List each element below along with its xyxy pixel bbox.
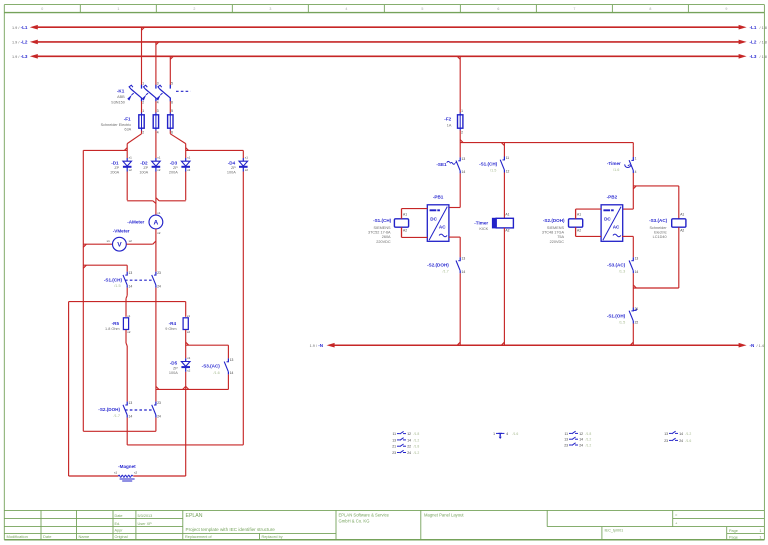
svg-text:13: 13 xyxy=(564,438,568,442)
svg-text:x1: x1 xyxy=(114,470,118,474)
svg-text:-Timer: -Timer xyxy=(474,220,488,225)
svg-text:-D1: -D1 xyxy=(111,160,119,165)
svg-text:Schneider Electric: Schneider Electric xyxy=(101,123,132,127)
svg-text:4: 4 xyxy=(345,7,347,11)
svg-text:Date: Date xyxy=(43,534,52,539)
svg-text:23: 23 xyxy=(564,443,568,447)
svg-text:-D3: -D3 xyxy=(170,160,178,165)
svg-text:21: 21 xyxy=(635,307,639,311)
svg-text:/1.5: /1.5 xyxy=(114,284,120,288)
svg-text:S3N150: S3N150 xyxy=(111,101,125,105)
svg-text:13: 13 xyxy=(129,401,133,405)
svg-text:-Timer: -Timer xyxy=(607,161,621,166)
svg-text:Ed.: Ed. xyxy=(115,522,121,526)
svg-text:AC: AC xyxy=(439,224,446,229)
svg-text:/1.2: /1.2 xyxy=(414,451,420,455)
svg-text:DC: DC xyxy=(430,217,437,222)
svg-text:x2: x2 xyxy=(129,239,133,243)
svg-text:x2: x2 xyxy=(245,168,249,172)
svg-text:LC1D40: LC1D40 xyxy=(653,235,667,239)
svg-text:-D2: -D2 xyxy=(140,160,148,165)
svg-text:x2: x2 xyxy=(127,330,131,334)
svg-text:11: 11 xyxy=(564,432,568,436)
svg-text:-S3.(AC): -S3.(AC) xyxy=(649,218,668,223)
svg-text:-L3: -L3 xyxy=(21,54,28,59)
svg-text:A2: A2 xyxy=(403,229,407,233)
svg-text:A2: A2 xyxy=(577,229,581,233)
svg-text:-L1: -L1 xyxy=(21,25,28,30)
svg-text:23: 23 xyxy=(157,271,161,275)
svg-text:ZP: ZP xyxy=(143,166,148,170)
svg-text:5: 5 xyxy=(421,7,423,11)
svg-text:/1.3: /1.3 xyxy=(619,270,625,274)
svg-text:ZP: ZP xyxy=(173,166,178,170)
svg-text:/1.7: /1.7 xyxy=(114,414,120,418)
svg-text:13: 13 xyxy=(664,432,668,436)
svg-text:x1: x1 xyxy=(187,314,191,318)
svg-text:Original: Original xyxy=(115,535,128,539)
svg-text:13: 13 xyxy=(392,438,396,442)
svg-text:14: 14 xyxy=(129,414,133,418)
svg-text:-R4: -R4 xyxy=(169,321,177,326)
svg-text:-R5: -R5 xyxy=(112,321,120,326)
svg-text:Modification: Modification xyxy=(7,534,28,539)
svg-text:23: 23 xyxy=(392,451,396,455)
svg-text:100A: 100A xyxy=(169,371,178,375)
svg-text:1.8 Ohm: 1.8 Ohm xyxy=(105,327,120,331)
svg-text:75A: 75A xyxy=(557,235,564,239)
svg-text:1: 1 xyxy=(759,535,761,539)
svg-text:Date: Date xyxy=(115,514,123,518)
svg-text:-S3.(AC): -S3.(AC) xyxy=(607,263,626,268)
svg-text:13: 13 xyxy=(129,271,133,275)
svg-text:/ 1.8: / 1.8 xyxy=(760,55,767,59)
svg-text:Appr: Appr xyxy=(115,529,124,533)
svg-text:Schneider: Schneider xyxy=(649,226,667,230)
svg-text:-S2.(DOH): -S2.(DOH) xyxy=(427,262,449,267)
svg-text:14: 14 xyxy=(462,270,466,274)
svg-text:14: 14 xyxy=(407,438,411,442)
svg-text:/ 1.8: / 1.8 xyxy=(760,41,767,45)
svg-text:9 Ohm: 9 Ohm xyxy=(165,327,176,331)
svg-text:A1: A1 xyxy=(403,212,407,216)
svg-text:5/3/2013: 5/3/2013 xyxy=(138,514,153,518)
svg-text:Page: Page xyxy=(729,535,738,539)
svg-text:-S1.(CH): -S1.(CH) xyxy=(479,161,498,166)
svg-text:SIEMENS: SIEMENS xyxy=(547,226,565,230)
svg-text:A1: A1 xyxy=(577,212,581,216)
svg-text:x2: x2 xyxy=(187,168,191,172)
svg-text:x1: x1 xyxy=(107,239,111,243)
svg-text:14: 14 xyxy=(579,438,583,442)
svg-text:-L3: -L3 xyxy=(750,54,757,59)
svg-text:/1.6: /1.6 xyxy=(213,371,219,375)
svg-text:200A: 200A xyxy=(169,171,178,175)
svg-text:1: 1 xyxy=(142,109,144,113)
svg-text:x2: x2 xyxy=(187,330,191,334)
svg-text:1: 1 xyxy=(759,529,761,533)
svg-text:-S1.(CH): -S1.(CH) xyxy=(373,218,392,223)
svg-text:ABB: ABB xyxy=(117,95,125,99)
svg-text:4: 4 xyxy=(635,170,637,174)
svg-text:24: 24 xyxy=(679,439,683,443)
svg-text:220VDC: 220VDC xyxy=(376,240,391,244)
svg-text:/1.8: /1.8 xyxy=(586,432,592,436)
svg-text:24: 24 xyxy=(579,443,583,447)
svg-text:22: 22 xyxy=(407,445,411,449)
svg-text:Magnet Panel Layout: Magnet Panel Layout xyxy=(424,513,464,518)
svg-text:Project template with IEC iden: Project template with IEC identifier str… xyxy=(186,527,276,532)
svg-text:3TC48 17GA: 3TC48 17GA xyxy=(542,231,565,235)
svg-text:/1.5: /1.5 xyxy=(619,320,625,324)
svg-text:5: 5 xyxy=(171,109,173,113)
svg-text:3: 3 xyxy=(157,82,159,86)
svg-text:x2: x2 xyxy=(187,369,191,373)
svg-text:13: 13 xyxy=(462,157,466,161)
svg-text:1: 1 xyxy=(142,82,144,86)
svg-text:User XP: User XP xyxy=(138,522,153,526)
svg-text:7: 7 xyxy=(573,7,575,11)
svg-text:x2: x2 xyxy=(157,168,161,172)
svg-text:AC: AC xyxy=(613,224,620,229)
svg-text:KICK: KICK xyxy=(479,227,488,231)
svg-text:-AMeter: -AMeter xyxy=(127,220,144,225)
svg-text:14: 14 xyxy=(635,270,639,274)
svg-text:/ 1.8: / 1.8 xyxy=(760,26,767,30)
svg-text:-L2: -L2 xyxy=(750,40,757,45)
svg-text:x1: x1 xyxy=(127,314,131,318)
svg-text:2: 2 xyxy=(461,130,463,134)
svg-text:3: 3 xyxy=(269,7,271,11)
svg-text:6: 6 xyxy=(171,131,173,135)
svg-text:1: 1 xyxy=(493,432,495,436)
svg-text:/1.6: /1.6 xyxy=(686,439,692,443)
svg-text:-S3.(AC): -S3.(AC) xyxy=(202,363,221,368)
svg-text:1.9 /: 1.9 / xyxy=(12,55,20,59)
svg-text:12: 12 xyxy=(407,432,411,436)
svg-text:11: 11 xyxy=(392,432,396,436)
svg-text:13: 13 xyxy=(462,257,466,261)
svg-text:Name: Name xyxy=(79,534,90,539)
svg-text:14: 14 xyxy=(230,371,234,375)
svg-text:-N: -N xyxy=(318,343,324,348)
svg-text:x1: x1 xyxy=(245,156,249,160)
svg-text:23: 23 xyxy=(157,401,161,405)
svg-text:Page: Page xyxy=(729,529,738,533)
svg-text:-D4: -D4 xyxy=(228,160,236,165)
svg-text:1: 1 xyxy=(635,156,637,160)
svg-text:100A: 100A xyxy=(139,171,148,175)
svg-text:/1.7: /1.7 xyxy=(442,269,448,273)
svg-text:/1.2: /1.2 xyxy=(586,443,592,447)
svg-text:-D5: -D5 xyxy=(170,361,178,366)
svg-text:63A: 63A xyxy=(124,128,131,132)
svg-text:220VDC: 220VDC xyxy=(550,240,565,244)
svg-text:6: 6 xyxy=(497,7,499,11)
svg-text:x2: x2 xyxy=(134,470,138,474)
svg-text:/1.2: /1.2 xyxy=(686,432,692,436)
svg-text:24: 24 xyxy=(157,414,161,418)
svg-text:1.9 /: 1.9 / xyxy=(12,41,20,45)
svg-text:4: 4 xyxy=(157,101,159,105)
svg-text:1: 1 xyxy=(117,7,119,11)
svg-text:x1: x1 xyxy=(157,211,161,215)
svg-text:ZP: ZP xyxy=(231,166,236,170)
svg-text:12: 12 xyxy=(579,432,583,436)
svg-text:24: 24 xyxy=(157,285,161,289)
svg-text:Electric: Electric xyxy=(654,231,667,235)
svg-text:A2: A2 xyxy=(680,229,684,233)
svg-text:GmbH & Co. KG: GmbH & Co. KG xyxy=(339,519,370,524)
svg-text:+: + xyxy=(675,521,678,526)
svg-text:/1.6: /1.6 xyxy=(613,168,619,172)
svg-text:A: A xyxy=(154,219,159,226)
svg-text:/1.2: /1.2 xyxy=(586,438,592,442)
svg-text:-Magnet: -Magnet xyxy=(118,464,136,469)
svg-text:/1.8: /1.8 xyxy=(414,445,420,449)
svg-text:3TC52 17-6A: 3TC52 17-6A xyxy=(368,231,391,235)
svg-text:x1: x1 xyxy=(157,156,161,160)
svg-text:14: 14 xyxy=(462,170,466,174)
svg-text:A1: A1 xyxy=(680,212,684,216)
svg-text:A1: A1 xyxy=(505,212,509,216)
svg-text:11: 11 xyxy=(506,156,510,160)
svg-text:2: 2 xyxy=(142,101,144,105)
svg-text:-VMeter: -VMeter xyxy=(113,229,130,234)
svg-text:-S2.(DOH): -S2.(DOH) xyxy=(98,407,120,412)
svg-text:200A: 200A xyxy=(110,171,119,175)
svg-text:-S1.(OH): -S1.(OH) xyxy=(607,313,626,318)
svg-text:4: 4 xyxy=(157,131,159,135)
svg-text:24: 24 xyxy=(407,451,411,455)
svg-text:3: 3 xyxy=(157,109,159,113)
svg-text:1A: 1A xyxy=(447,123,452,127)
svg-text:260A: 260A xyxy=(382,235,391,239)
svg-text:EPLAN: EPLAN xyxy=(186,513,203,519)
svg-text:8: 8 xyxy=(649,7,651,11)
svg-text:12: 12 xyxy=(506,169,510,173)
svg-text:SIEMENS: SIEMENS xyxy=(374,226,392,230)
svg-text:x1: x1 xyxy=(129,156,133,160)
svg-text:ZP: ZP xyxy=(173,367,178,371)
svg-text:ZP: ZP xyxy=(114,166,119,170)
svg-text:21: 21 xyxy=(392,445,396,449)
svg-text:13: 13 xyxy=(635,257,639,261)
svg-text:5: 5 xyxy=(171,82,173,86)
svg-text:23: 23 xyxy=(664,439,668,443)
svg-text:/ 1.4: / 1.4 xyxy=(757,344,764,348)
svg-text:1.9 /: 1.9 / xyxy=(310,344,318,348)
svg-text:V: V xyxy=(117,242,122,249)
svg-text:-L2: -L2 xyxy=(21,40,28,45)
svg-text:-K1: -K1 xyxy=(117,89,125,94)
svg-text:2: 2 xyxy=(142,131,144,135)
svg-text:14: 14 xyxy=(679,432,683,436)
svg-text:x2: x2 xyxy=(129,168,133,172)
svg-text:-PB2: -PB2 xyxy=(607,194,618,199)
svg-text:=: = xyxy=(675,512,678,517)
svg-text:-S2.(DOH): -S2.(DOH) xyxy=(543,218,565,223)
svg-text:-N: -N xyxy=(750,343,756,348)
svg-text:1: 1 xyxy=(461,109,463,113)
svg-text:-L1: -L1 xyxy=(750,25,757,30)
svg-text:100A: 100A xyxy=(227,171,236,175)
svg-text:EPLAN Software & Service: EPLAN Software & Service xyxy=(339,513,390,518)
svg-text:x2: x2 xyxy=(157,231,161,235)
svg-text:22: 22 xyxy=(635,320,639,324)
svg-text:DC: DC xyxy=(604,217,611,222)
svg-text:-SE1: -SE1 xyxy=(436,162,447,167)
svg-text:/1.8: /1.8 xyxy=(414,432,420,436)
svg-text:-S1.(CH): -S1.(CH) xyxy=(104,277,123,282)
svg-text:x1: x1 xyxy=(187,356,191,360)
svg-text:Replaced by: Replaced by xyxy=(262,535,283,539)
svg-text:Replacement of: Replacement of xyxy=(185,535,213,539)
svg-text:-F2: -F2 xyxy=(444,117,451,122)
svg-text:/1.6: /1.6 xyxy=(513,432,519,436)
svg-text:2: 2 xyxy=(193,7,195,11)
svg-text:/1.5: /1.5 xyxy=(490,168,496,172)
svg-text:IEC_tpl001: IEC_tpl001 xyxy=(605,529,624,533)
svg-text:A2: A2 xyxy=(505,228,509,232)
svg-text:-F1: -F1 xyxy=(124,117,131,122)
svg-text:13: 13 xyxy=(230,358,234,362)
svg-text:1.9 /: 1.9 / xyxy=(12,26,20,30)
svg-text:9: 9 xyxy=(725,7,727,11)
svg-text:6: 6 xyxy=(171,101,173,105)
svg-text:/1.2: /1.2 xyxy=(414,438,420,442)
svg-text:0: 0 xyxy=(41,7,43,11)
svg-text:4: 4 xyxy=(506,432,508,436)
svg-text:x1: x1 xyxy=(187,156,191,160)
svg-text:14: 14 xyxy=(129,285,133,289)
svg-text:-PB1: -PB1 xyxy=(433,194,444,199)
